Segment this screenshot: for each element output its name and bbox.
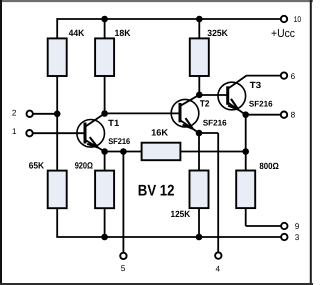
- junction bottom 125K: [196, 234, 203, 241]
- terminal 8: [281, 112, 287, 118]
- junction node C: [196, 92, 203, 99]
- wire terminal 1 to T1 base: [30, 132, 86, 134]
- wire 16K to node H: [180, 151, 245, 153]
- svg-text:SF216: SF216: [203, 119, 227, 128]
- svg-text:125K: 125K: [171, 209, 191, 219]
- junction node F: [120, 148, 127, 155]
- svg-text:T2: T2: [200, 98, 210, 108]
- wire node F to terminal 5: [122, 152, 124, 253]
- resistor 920ohm: [95, 171, 114, 209]
- svg-text:1: 1: [12, 127, 17, 136]
- wire to terminal 4: [217, 133, 219, 253]
- wire 125K bottom lead: [198, 208, 200, 237]
- junction top 325K: [196, 16, 203, 23]
- svg-text:325K: 325K: [207, 28, 228, 38]
- terminal 3: [281, 234, 287, 240]
- svg-text:800Ω: 800Ω: [259, 161, 279, 171]
- border frame left: [0, 0, 2, 285]
- wire 65K bottom lead: [56, 208, 58, 237]
- terminal 6: [281, 72, 287, 78]
- junction node G: [196, 130, 203, 137]
- junction node H2: [242, 111, 249, 118]
- wire node H2 to terminal 8: [246, 114, 281, 116]
- border frame right: [310, 0, 312, 285]
- resistor 125K: [190, 171, 209, 209]
- svg-text:8: 8: [291, 111, 296, 120]
- svg-text:920Ω: 920Ω: [75, 161, 93, 171]
- svg-text:6: 6: [291, 72, 296, 81]
- resistor 325K: [190, 38, 209, 76]
- wire terminal 2 to node A: [30, 113, 58, 115]
- svg-text:18K: 18K: [115, 28, 131, 38]
- svg-text:T3: T3: [250, 80, 262, 90]
- wire bottom rail to terminal 3: [56, 236, 281, 238]
- terminal 1: [26, 130, 32, 136]
- wire 325K to node C: [198, 76, 200, 95]
- wire node B to T2 base: [105, 112, 180, 114]
- svg-text:2: 2: [12, 108, 17, 117]
- svg-text:3: 3: [295, 233, 300, 242]
- wire 325K top lead: [198, 18, 200, 39]
- wire T3 collector to terminal 6: [246, 75, 281, 77]
- junction bottom 920ohm: [101, 234, 108, 241]
- wire 800ohm bottom lead: [245, 208, 247, 226]
- terminal 10: [281, 16, 287, 22]
- svg-text:+Ucc: +Ucc: [271, 28, 295, 40]
- border frame bottom: [0, 283, 313, 285]
- transistor T1: [77, 114, 105, 152]
- wire 920ohm bottom lead: [104, 208, 106, 237]
- wire 44K to 65K: [56, 76, 58, 171]
- terminal 4: [215, 252, 221, 258]
- transistor T2: [171, 95, 199, 133]
- wire top supply rail: [57, 18, 281, 20]
- border frame top: [0, 0, 313, 2]
- wire 18K to node B: [104, 76, 106, 114]
- resistor 44K: [48, 38, 67, 76]
- svg-text:SF216: SF216: [108, 137, 130, 146]
- svg-text:65K: 65K: [29, 161, 45, 171]
- svg-text:10: 10: [294, 15, 302, 24]
- svg-text:T1: T1: [108, 118, 119, 128]
- resistor 18K: [95, 38, 114, 76]
- svg-text:SF216: SF216: [249, 100, 273, 109]
- svg-text:4: 4: [216, 264, 221, 273]
- terminal 9: [281, 223, 287, 229]
- terminal 2: [27, 111, 33, 117]
- transistor T3: [218, 76, 246, 115]
- wire 18K top lead: [104, 18, 106, 39]
- wire 800ohm top lead: [245, 115, 247, 171]
- terminal 5: [120, 253, 126, 259]
- svg-text:44K: 44K: [69, 28, 85, 38]
- svg-text:5: 5: [121, 264, 126, 273]
- resistor 65K: [48, 171, 67, 209]
- junction top 18K: [101, 16, 108, 23]
- wire 44K top lead: [56, 18, 58, 39]
- wire node E to 16K: [105, 151, 142, 153]
- junction node H: [242, 148, 249, 155]
- junction node A: [54, 111, 61, 118]
- wire node C to T3 base: [199, 94, 227, 96]
- wire 920ohm top lead: [104, 152, 106, 171]
- svg-text:BV 12: BV 12: [138, 183, 175, 200]
- junction node E: [101, 148, 108, 155]
- resistor 800ohm: [236, 171, 255, 209]
- junction node B: [101, 110, 108, 117]
- wire to terminal 9: [246, 225, 281, 227]
- wire node G branch: [199, 132, 218, 134]
- svg-text:16K: 16K: [151, 127, 169, 137]
- wire node G to 125K: [198, 133, 200, 171]
- resistor 16K: [142, 143, 181, 161]
- svg-text:9: 9: [295, 222, 300, 231]
